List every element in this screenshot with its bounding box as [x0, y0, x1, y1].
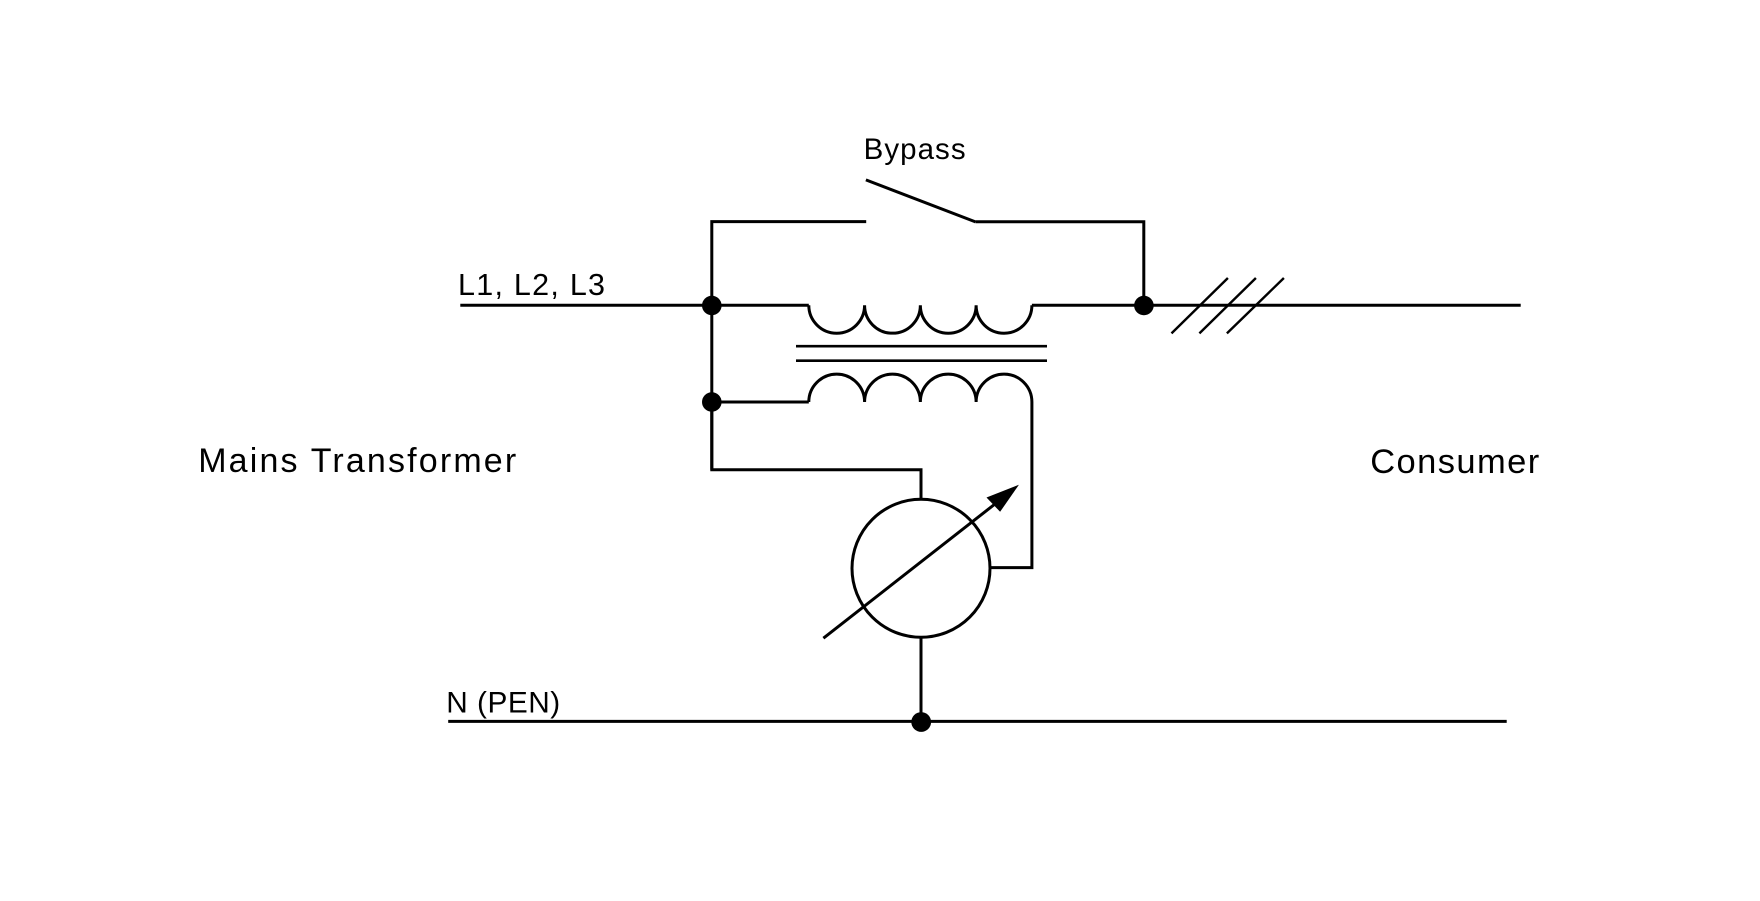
consumer feeder slash 2: [1199, 278, 1256, 333]
variable source U1 circle: [852, 499, 990, 637]
transformer T1 secondary winding and wire down to regulator: [809, 374, 1032, 567]
junction node at L1 line and bypass tap: [702, 296, 722, 316]
svg-text:Bypass: Bypass: [864, 133, 966, 166]
wire from node down and across to regulator top: [712, 402, 921, 499]
wire regulator bottom to neutral: [920, 637, 923, 721]
variable source U1 arrow shaft: [823, 499, 1002, 639]
junction node at secondary tap: [702, 392, 722, 412]
wire L1,L2,L3 line left segment: [460, 304, 809, 307]
junction node at neutral connection: [911, 712, 931, 732]
wire N (PEN) line: [448, 720, 1507, 723]
svg-text:L1, L2, L3: L1, L2, L3: [458, 268, 605, 302]
junction node at bypass rejoin: [1134, 296, 1154, 316]
switch S1 bypass blade: [866, 180, 976, 222]
transformer T1 core: [796, 346, 1047, 361]
consumer feeder slash 3: [1227, 278, 1284, 333]
wire switch right terminal down to line junction: [976, 222, 1144, 305]
wire L1,L2,L3 line right segment to consumer: [1032, 304, 1521, 307]
consumer feeder slash 1: [1172, 278, 1228, 333]
transformer T1 primary winding: [809, 305, 1032, 333]
svg-text:Consumer: Consumer: [1370, 443, 1539, 481]
wire bypass branch left vertical and switch left terminal: [712, 222, 866, 470]
svg-text:N (PEN): N (PEN): [446, 687, 560, 720]
svg-text:Mains Transformer: Mains Transformer: [198, 442, 516, 480]
wire secondary tap from node to winding: [712, 401, 809, 404]
variable source U1 arrowhead: [987, 485, 1019, 512]
